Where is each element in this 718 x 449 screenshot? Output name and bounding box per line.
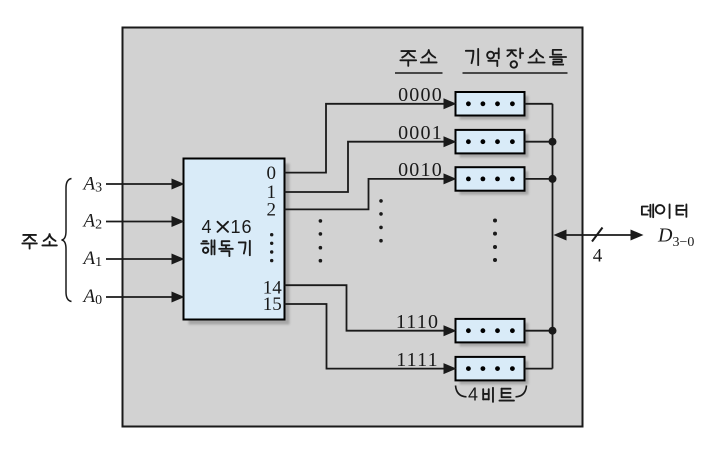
svg-text:1110: 1110	[396, 311, 439, 333]
svg-text:0000: 0000	[398, 84, 443, 106]
svg-text:0: 0	[266, 163, 276, 184]
svg-text:16: 16	[230, 217, 252, 237]
svg-text:0001: 0001	[398, 122, 443, 144]
svg-text:0010: 0010	[398, 159, 443, 181]
svg-text:4: 4	[593, 246, 603, 267]
svg-text:15: 15	[263, 294, 282, 315]
svg-text:1111: 1111	[396, 349, 439, 371]
svg-text:2: 2	[266, 200, 276, 221]
svg-text:4: 4	[201, 217, 211, 237]
svg-text:4: 4	[468, 385, 478, 405]
